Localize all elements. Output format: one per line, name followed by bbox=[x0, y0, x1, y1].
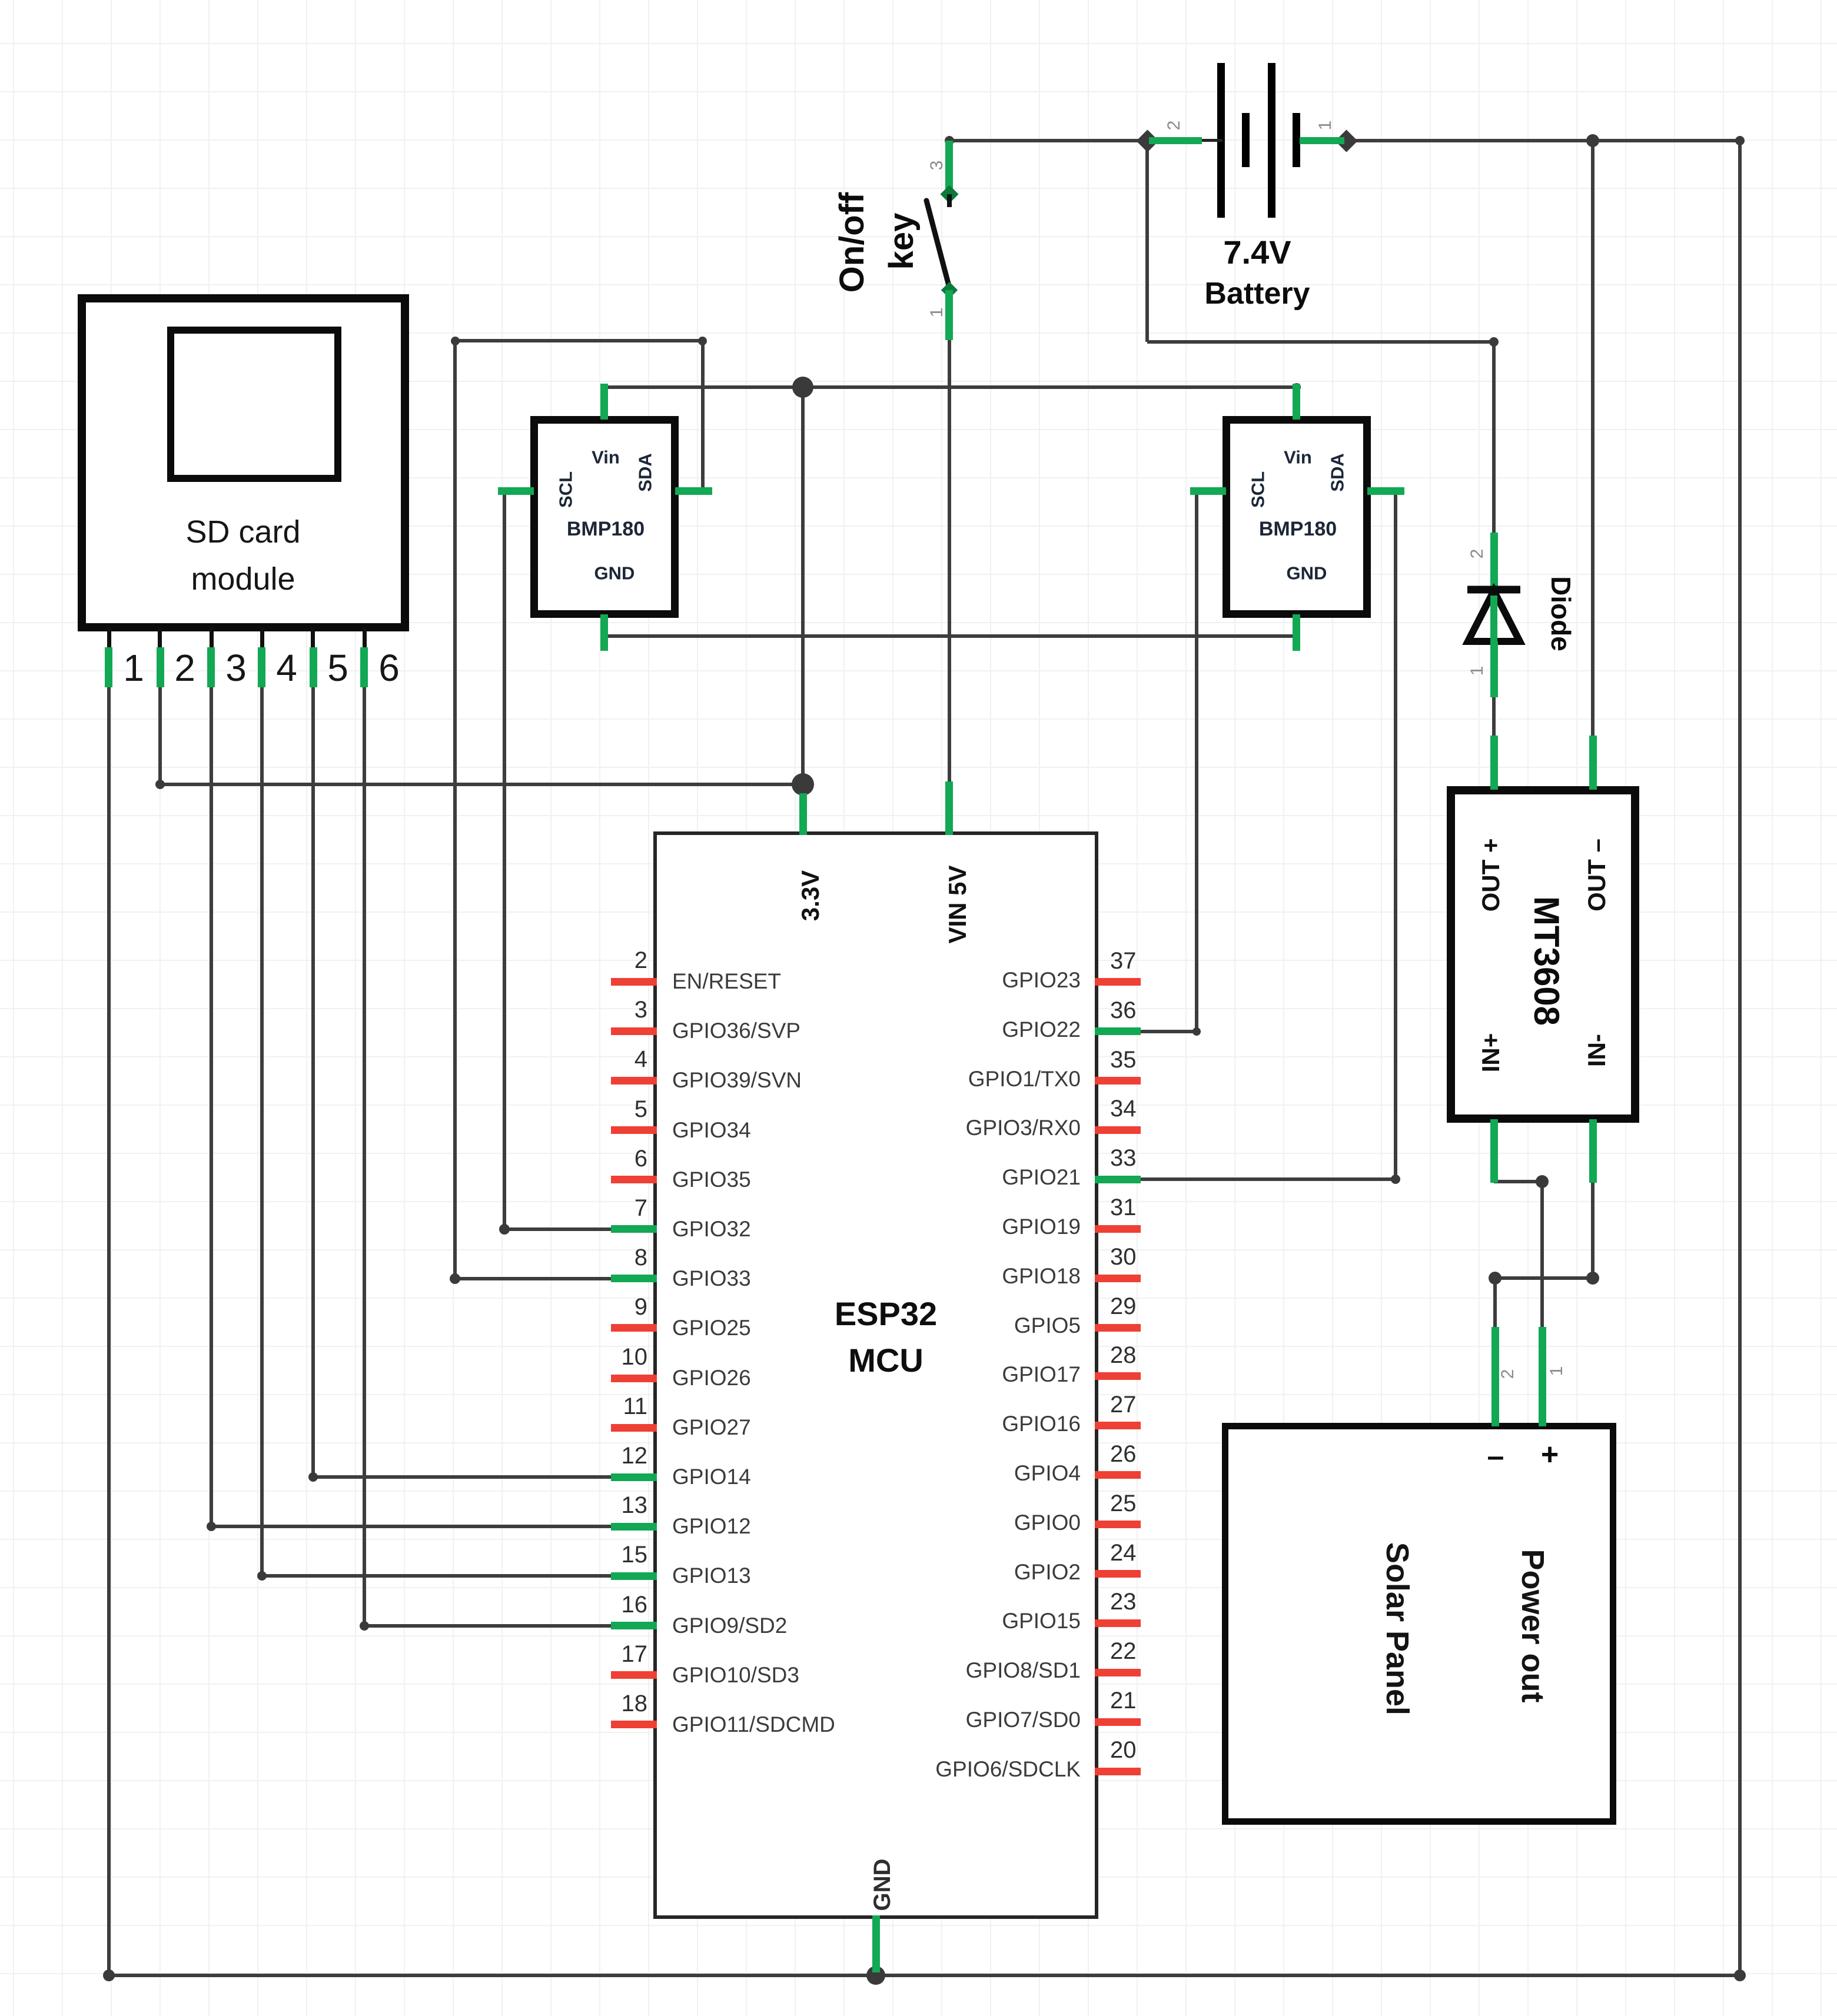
label pin name GPIO6/SDCLK bbox=[786, 1758, 1081, 1780]
wire switch-top to battery bbox=[949, 139, 1147, 142]
battery pin 1 green bbox=[1300, 137, 1344, 144]
node GPIO32 corner bbox=[499, 1224, 510, 1235]
node OUT- tap bbox=[1586, 134, 1599, 147]
BMP180 U1 label GND bbox=[594, 564, 635, 583]
node GPIO9 corner bbox=[360, 1621, 369, 1631]
BMP180 U2 body bbox=[1223, 416, 1371, 618]
label Diode bbox=[1547, 576, 1574, 651]
label pin number 16 bbox=[577, 1593, 647, 1616]
label On/off bbox=[835, 192, 869, 293]
wire SD pin3 down bbox=[210, 683, 213, 1526]
label key bbox=[885, 213, 919, 270]
BMP180 U2 label GND bbox=[1287, 564, 1327, 583]
label Solar Panel bbox=[1381, 1542, 1413, 1715]
label pin name GPIO36/SVP bbox=[672, 1020, 800, 1042]
label pin name GPIO17 bbox=[786, 1363, 1081, 1385]
wire switch to VIN 5V bbox=[948, 338, 951, 794]
SD pin 3 green bbox=[207, 647, 215, 687]
pin 31 stub bbox=[1095, 1225, 1141, 1233]
wire SD pin5 down bbox=[311, 683, 315, 1477]
MT3608 pin OUT- green bbox=[1589, 736, 1597, 790]
label pin number 10 bbox=[577, 1345, 647, 1369]
wire BMP2 SDA down bbox=[1394, 491, 1397, 1179]
label pin name GPIO9/SD2 bbox=[672, 1615, 787, 1636]
pin 9 stub bbox=[611, 1324, 657, 1332]
battery pin 2 lead bbox=[1202, 139, 1223, 142]
BMP180 U1 label Vin bbox=[592, 448, 620, 467]
diode center green bbox=[1490, 596, 1497, 641]
wire to GPIO14 bbox=[313, 1475, 651, 1479]
node GPIO22 corner bbox=[1192, 1027, 1201, 1036]
node 3.3V/Vin junction bbox=[792, 377, 813, 398]
label pin name GPIO27 bbox=[672, 1416, 751, 1438]
pin 8 stub bbox=[611, 1275, 657, 1282]
BMP180 U1 pin Vin bbox=[600, 384, 608, 420]
node SDA1 corner B bbox=[698, 337, 707, 345]
SD pin 5 green bbox=[310, 647, 317, 687]
label pin number 9 bbox=[577, 1295, 647, 1319]
battery plate long 2 bbox=[1268, 63, 1275, 218]
node IN+ corner bbox=[1536, 1175, 1549, 1188]
pin 18 stub bbox=[611, 1721, 657, 1728]
label pin number 2 bbox=[577, 949, 647, 972]
wire battery pin2 down bbox=[1145, 141, 1149, 342]
BMP180 U1 label SDA bbox=[636, 453, 655, 491]
BMP180 U1 body bbox=[530, 416, 679, 618]
label pin number 18 bbox=[577, 1692, 647, 1715]
switch pin 3 green bbox=[945, 141, 953, 189]
label ESP32 bbox=[835, 1298, 937, 1330]
label pin number 36 bbox=[1110, 999, 1137, 1022]
label diode pin 2 bbox=[1469, 549, 1486, 559]
pin 37 stub bbox=[1095, 978, 1141, 986]
switch pin 1 green bbox=[945, 290, 953, 340]
label pin name GPIO22 bbox=[786, 1019, 1081, 1040]
label pin number 25 bbox=[1110, 1492, 1137, 1515]
wire IN- jog bbox=[1495, 1276, 1593, 1280]
BMP180 U2 label SDA bbox=[1328, 453, 1347, 491]
wire battery pin2 to diode bbox=[1147, 340, 1496, 344]
SD pin 4 stub bbox=[260, 627, 264, 648]
SD pin 2 green bbox=[157, 647, 164, 687]
label battery pin 2 bbox=[1165, 121, 1183, 131]
MT3608 pin IN- green bbox=[1589, 1119, 1597, 1183]
label pin number 12 bbox=[577, 1444, 647, 1468]
node battery pin2 junction bbox=[1136, 129, 1158, 152]
label pin number 15 bbox=[577, 1543, 647, 1566]
label pin number 3 bbox=[225, 649, 247, 687]
label pin number 23 bbox=[1110, 1590, 1137, 1614]
label pin number 13 bbox=[577, 1493, 647, 1517]
label pin number 35 bbox=[1110, 1048, 1137, 1072]
label pin name GPIO13 bbox=[672, 1565, 751, 1586]
wire IN+ down to solar + bbox=[1540, 1182, 1544, 1330]
wire down to BMP1 SDA bbox=[701, 341, 705, 490]
pin 15 stub bbox=[611, 1572, 657, 1580]
label GND bbox=[871, 1859, 894, 1911]
label diode pin 1 bbox=[1469, 666, 1486, 676]
node GPIO12 corner bbox=[207, 1522, 216, 1531]
pin 36 stub bbox=[1095, 1027, 1141, 1035]
BMP180 U2 pin SDA bbox=[1367, 487, 1404, 495]
wire BMP1 SCL down bbox=[503, 491, 506, 1229]
label pin name GPIO35 bbox=[672, 1169, 751, 1190]
wire SD pin4 down bbox=[260, 683, 264, 1576]
wire SD pin2 to 3.3V node bbox=[160, 783, 803, 786]
label pin name GPIO10/SD3 bbox=[672, 1664, 799, 1686]
wire IN- down bbox=[1591, 1182, 1594, 1278]
solar pin 1 green bbox=[1539, 1327, 1546, 1426]
wire 3.3V rail bbox=[801, 387, 805, 797]
label pin name GPIO8/SD1 bbox=[786, 1659, 1081, 1681]
label SD card bbox=[185, 516, 300, 548]
pin 17 stub bbox=[611, 1671, 657, 1679]
label pin name GPIO21 bbox=[786, 1166, 1081, 1188]
label pin number 21 bbox=[1110, 1689, 1137, 1712]
SD pin 2 stub bbox=[158, 627, 162, 648]
label pin name GPIO25 bbox=[672, 1317, 751, 1339]
node bottom-right corner bbox=[1734, 1970, 1746, 1981]
node top-right corner bbox=[1735, 136, 1745, 145]
label pin number 17 bbox=[577, 1642, 647, 1666]
MT3608 U4 body bbox=[1447, 786, 1639, 1123]
wire BMP1 Vin to BMP2 Vin bbox=[604, 385, 1297, 389]
label pin number 34 bbox=[1110, 1097, 1137, 1120]
switch pin 3 node bbox=[940, 185, 958, 203]
MT3608 label name bbox=[1529, 896, 1564, 1026]
node bottom-left corner bbox=[103, 1970, 115, 1981]
label pin number 26 bbox=[1110, 1442, 1137, 1466]
battery plate short 2 bbox=[1293, 113, 1300, 167]
label pin name GPIO33 bbox=[672, 1268, 751, 1289]
BMP180 U2 label Vin bbox=[1284, 448, 1312, 467]
label battery pin 1 bbox=[1317, 121, 1334, 131]
diode symbol bbox=[1460, 583, 1528, 648]
wire SDA1 top link bbox=[455, 339, 703, 342]
SD card module U5 bbox=[78, 294, 409, 631]
label pin number 4 bbox=[276, 649, 297, 687]
pin 29 stub bbox=[1095, 1324, 1141, 1332]
wire to GPIO9/SD2 bbox=[364, 1624, 651, 1628]
BMP180 U2 label BMP180 bbox=[1259, 519, 1337, 539]
pin 2 stub bbox=[611, 978, 657, 986]
label pin name GPIO23 bbox=[786, 969, 1081, 991]
label pin name GPIO34 bbox=[672, 1119, 751, 1141]
node GND junction bbox=[866, 1966, 885, 1985]
solar pin 2 green bbox=[1491, 1327, 1499, 1426]
label pin name GPIO39/SVN bbox=[672, 1069, 802, 1091]
solar panel body bbox=[1222, 1423, 1616, 1825]
pin 3 stub bbox=[611, 1027, 657, 1035]
MT3608 label OUT+ bbox=[1479, 839, 1503, 912]
wire to GPIO21 bbox=[1136, 1177, 1396, 1181]
node GPIO33 corner bbox=[450, 1273, 460, 1284]
MT3608 pin IN+ green bbox=[1490, 1119, 1498, 1183]
ESP32 pin GND green bbox=[872, 1915, 880, 1972]
wire SD pin6 down bbox=[363, 683, 366, 1626]
wire to GPIO12 bbox=[211, 1525, 651, 1528]
node 3.3V junction bbox=[792, 773, 814, 796]
BMP180 U2 pin SCL bbox=[1190, 487, 1226, 495]
wire right rail bbox=[1738, 139, 1742, 1977]
pin 6 stub bbox=[611, 1176, 657, 1183]
switch pin 1 node bbox=[941, 282, 958, 298]
SD pin 6 green bbox=[360, 647, 368, 687]
MT3608 label IN+ bbox=[1479, 1033, 1503, 1073]
BMP180 U1 pin GND bbox=[600, 614, 608, 651]
node SD pin2 corner bbox=[155, 780, 165, 789]
pin 20 stub bbox=[1095, 1768, 1141, 1775]
label pin number 8 bbox=[577, 1246, 647, 1269]
wire BMP1 GND to BMP2 GND bbox=[604, 634, 1297, 638]
wire top rail to MT3608 OUT- bbox=[1591, 141, 1594, 737]
node BMP2 Vin corner bbox=[1293, 383, 1301, 391]
label pin name GPIO2 bbox=[786, 1561, 1081, 1583]
wire down to solar - bbox=[1493, 1278, 1497, 1330]
label pin number 30 bbox=[1110, 1245, 1137, 1269]
node SDA1 corner A bbox=[451, 337, 460, 345]
BMP180 U1 pin SDA bbox=[675, 487, 712, 495]
label pin number 3 bbox=[577, 998, 647, 1022]
wire to GPIO32 bbox=[504, 1227, 651, 1231]
pin 27 stub bbox=[1095, 1422, 1141, 1429]
wire diode to OUT+ bbox=[1492, 697, 1496, 737]
MT3608 pin OUT+ green bbox=[1490, 736, 1498, 790]
pin 26 stub bbox=[1095, 1471, 1141, 1479]
wire battery+ to right rail bbox=[1346, 139, 1740, 142]
label pin number 27 bbox=[1110, 1393, 1137, 1416]
ESP32 U3 body bbox=[653, 831, 1098, 1919]
pin 7 stub bbox=[611, 1225, 657, 1233]
diode pin 2 green bbox=[1490, 533, 1498, 588]
label pin number 2 bbox=[174, 649, 195, 687]
label pin number 4 bbox=[577, 1047, 647, 1071]
BMP180 U2 label SCL bbox=[1249, 471, 1267, 508]
label pin number 37 bbox=[1110, 949, 1137, 973]
label pin name GPIO19 bbox=[786, 1216, 1081, 1237]
node IN- corner A bbox=[1489, 1272, 1502, 1285]
ESP32 pin VIN 5V green bbox=[945, 781, 953, 835]
BMP180 U1 label BMP180 bbox=[567, 519, 645, 539]
pin 21 stub bbox=[1095, 1718, 1141, 1726]
node GPIO13 corner bbox=[257, 1571, 267, 1581]
BMP180 U1 pin SCL bbox=[498, 487, 534, 495]
BMP180 U2 pin GND bbox=[1293, 614, 1300, 651]
node GPIO21/SDA2 corner bbox=[1391, 1175, 1400, 1184]
node IN- corner B bbox=[1586, 1272, 1599, 1285]
label solar plus bbox=[1541, 1439, 1559, 1470]
SD pin 5 stub bbox=[311, 627, 315, 648]
ESP32 pin 3.3V green bbox=[799, 793, 807, 835]
node switch top corner bbox=[945, 136, 954, 145]
label switch pin 3 bbox=[928, 161, 946, 171]
pin 34 stub bbox=[1095, 1126, 1141, 1134]
pin 25 stub bbox=[1095, 1521, 1141, 1528]
MT3608 label IN- bbox=[1584, 1034, 1609, 1067]
pin 23 stub bbox=[1095, 1619, 1141, 1627]
label pin number 7 bbox=[577, 1196, 647, 1220]
label pin number 11 bbox=[577, 1395, 647, 1418]
label pin name GPIO32 bbox=[672, 1218, 751, 1240]
label pin name GPIO1/TX0 bbox=[786, 1068, 1081, 1090]
label pin name GPIO16 bbox=[786, 1413, 1081, 1435]
node diode feed corner bbox=[1489, 337, 1499, 347]
BMP180 U1 label SCL bbox=[557, 471, 575, 508]
label pin number 5 bbox=[327, 649, 348, 687]
SD pin 4 green bbox=[258, 647, 265, 687]
MT3608 label OUT- bbox=[1584, 839, 1609, 911]
wire SD pin1 to ground rail bbox=[107, 683, 111, 1977]
pin 13 stub bbox=[611, 1523, 657, 1531]
label pin name GPIO4 bbox=[786, 1462, 1081, 1484]
label pin name GPIO15 bbox=[786, 1610, 1081, 1632]
diode pin 1 green bbox=[1490, 641, 1498, 697]
label pin number 24 bbox=[1110, 1541, 1137, 1565]
pin 4 stub bbox=[611, 1077, 657, 1084]
pin 12 stub bbox=[611, 1473, 657, 1481]
pin 24 stub bbox=[1095, 1570, 1141, 1578]
wire to GPIO22 bbox=[1136, 1030, 1197, 1033]
switch pin 3 stub bbox=[947, 194, 952, 207]
label pin number 33 bbox=[1110, 1146, 1137, 1170]
node battery pin1 junction bbox=[1335, 129, 1357, 152]
label solar pin 2 bbox=[1499, 1369, 1517, 1379]
label 3.3V bbox=[798, 870, 823, 921]
pin 30 stub bbox=[1095, 1275, 1141, 1282]
pin 5 stub bbox=[611, 1126, 657, 1134]
label pin number 6 bbox=[378, 649, 400, 687]
pin 16 stub bbox=[611, 1622, 657, 1629]
wire SD pin2 down bbox=[158, 683, 162, 784]
pin 11 stub bbox=[611, 1424, 657, 1432]
pin 33 stub bbox=[1095, 1176, 1141, 1183]
battery pin 2 green bbox=[1149, 137, 1202, 144]
label pin name GPIO11/SDCMD bbox=[672, 1714, 835, 1735]
label pin name GPIO7/SD0 bbox=[786, 1709, 1081, 1731]
label pin name GPIO26 bbox=[672, 1367, 751, 1389]
pin 35 stub bbox=[1095, 1077, 1141, 1084]
SD pin 6 stub bbox=[363, 627, 367, 648]
label pin name GPIO0 bbox=[786, 1512, 1081, 1533]
label pin number 1 bbox=[123, 649, 144, 687]
label pin name GPIO12 bbox=[672, 1515, 751, 1537]
pin 22 stub bbox=[1095, 1669, 1141, 1676]
battery plate long 1 bbox=[1217, 63, 1225, 218]
wire to diode cathode bbox=[1492, 342, 1496, 538]
label pin name GPIO14 bbox=[672, 1466, 751, 1488]
label solar pin 1 bbox=[1548, 1366, 1566, 1376]
pin 28 stub bbox=[1095, 1372, 1141, 1380]
BMP180 U2 pin Vin bbox=[1293, 384, 1300, 420]
pin 10 stub bbox=[611, 1375, 657, 1382]
SD pin 1 green bbox=[105, 647, 112, 687]
label pin name GPIO18 bbox=[786, 1265, 1081, 1287]
wire to GPIO13 bbox=[262, 1574, 651, 1578]
label MCU bbox=[848, 1344, 924, 1377]
label pin name EN/RESET bbox=[672, 970, 781, 992]
label pin number 31 bbox=[1110, 1196, 1137, 1219]
label pin number 29 bbox=[1110, 1295, 1137, 1318]
label Battery bbox=[1204, 278, 1310, 309]
SD pin 3 stub bbox=[210, 627, 214, 648]
label pin name GPIO3/RX0 bbox=[786, 1117, 1081, 1139]
SD card slot bbox=[167, 327, 341, 482]
label pin number 20 bbox=[1110, 1738, 1137, 1762]
wire bottom ground rail bbox=[109, 1974, 1742, 1977]
wire down to GPIO33 row bbox=[453, 341, 457, 1279]
label Power out bbox=[1517, 1549, 1549, 1702]
wire BMP2 SCL down bbox=[1195, 491, 1198, 1032]
label 7.4V bbox=[1223, 236, 1291, 269]
wire to GPIO33 bbox=[455, 1277, 651, 1280]
label solar minus bbox=[1487, 1441, 1504, 1472]
battery plate short 1 bbox=[1242, 113, 1250, 167]
label VIN 5V bbox=[945, 865, 970, 943]
label pin number 28 bbox=[1110, 1343, 1137, 1367]
switch blade bbox=[918, 194, 959, 297]
wire IN+ jog bbox=[1494, 1180, 1542, 1183]
label pin number 22 bbox=[1110, 1639, 1137, 1663]
label switch pin 1 bbox=[928, 308, 946, 318]
label pin number 6 bbox=[577, 1147, 647, 1170]
node GPIO14 corner bbox=[308, 1472, 318, 1482]
label pin name GPIO5 bbox=[786, 1315, 1081, 1336]
SD pin 1 stub bbox=[107, 627, 111, 648]
label pin number 5 bbox=[577, 1097, 647, 1121]
